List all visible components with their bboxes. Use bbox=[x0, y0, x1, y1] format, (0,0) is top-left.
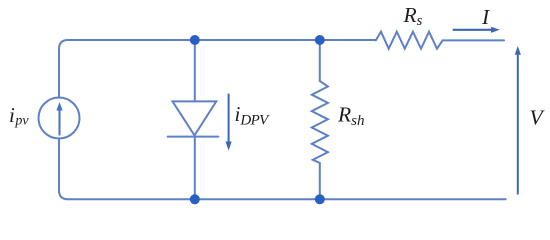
node B top-right junction dot bbox=[315, 35, 325, 45]
resistor Rsh zigzag bbox=[312, 81, 328, 163]
diode D cathode bar bbox=[168, 136, 219, 138]
wire left rail top corner bbox=[59, 40, 68, 98]
resistor Rs zigzag bbox=[376, 32, 443, 49]
node A top-left junction dot bbox=[190, 35, 200, 45]
wire Rsh branch top bbox=[319, 40, 321, 81]
svg-text:ipv: ipv bbox=[9, 103, 29, 129]
svg-text:Rsh: Rsh bbox=[337, 103, 364, 129]
diode D triangle bbox=[173, 101, 217, 135]
wire Rsh branch bottom bbox=[319, 163, 321, 199]
current source i_pv circle bbox=[39, 98, 80, 139]
arrow i_DPV (diode current, downward) bbox=[226, 94, 232, 151]
wire diode branch top bbox=[194, 40, 196, 101]
svg-text:V: V bbox=[530, 106, 546, 130]
wire bottom rail bbox=[68, 198, 506, 200]
svg-text:iDPV: iDPV bbox=[235, 102, 271, 129]
wire top rail bbox=[68, 39, 504, 41]
wire left rail bottom bbox=[59, 139, 68, 200]
svg-text:Rs: Rs bbox=[403, 3, 423, 29]
svg-text:I: I bbox=[481, 5, 490, 29]
node C bottom-left junction dot bbox=[190, 194, 200, 204]
arrow I (output current, rightward) bbox=[453, 27, 500, 33]
current source arrow (inside circle) bbox=[56, 102, 62, 135]
node D bottom-right junction dot bbox=[315, 194, 325, 204]
arrow V (output voltage, upward) bbox=[515, 46, 521, 195]
wire diode branch bottom bbox=[194, 137, 196, 200]
